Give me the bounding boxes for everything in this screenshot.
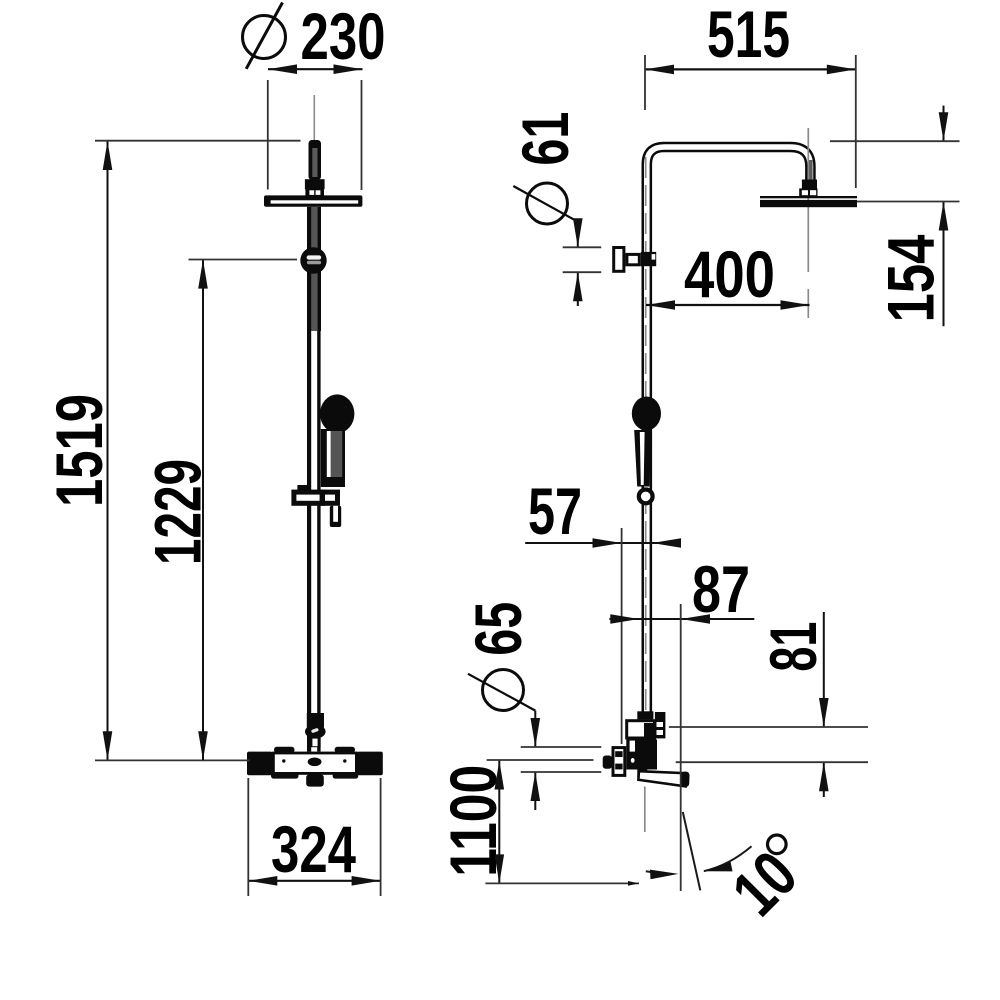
axis below spout (side) — [644, 787, 646, 833]
svg-text:57: 57 — [528, 474, 582, 548]
dimension 57 extension line — [621, 528, 623, 744]
slide bracket (front) — [294, 485, 338, 506]
dimension 154 extension lines — [830, 141, 960, 201]
mixer connector pipe + ball (front) — [305, 713, 326, 747]
svg-text:230: 230 — [301, 0, 386, 73]
shower arm tube (side) — [647, 147, 813, 712]
head stem nut (side) — [799, 180, 817, 197]
dimension 230 extension lines — [268, 80, 362, 190]
10 degree ring — [768, 835, 787, 854]
dimension 65 lines and arrows — [531, 711, 541, 810]
dimension 1100 extension line — [487, 759, 594, 761]
hand shower handle (front) — [321, 429, 345, 487]
dimension 1519 line and arrows — [103, 141, 113, 760]
dimension 230 line and arrows — [268, 64, 363, 74]
svg-text:400: 400 — [684, 237, 775, 311]
10 degree arc and arrows — [646, 846, 752, 879]
ball joint (front) — [300, 247, 326, 273]
svg-text:324: 324 — [271, 812, 356, 886]
riser pipe upper (front) — [307, 207, 321, 331]
dimension 61 extension lines — [563, 247, 602, 272]
shower head plate (side) — [760, 196, 857, 207]
dimension 515 line and arrows — [645, 65, 856, 75]
dimension 324 extension lines — [248, 778, 380, 896]
svg-text:81: 81 — [756, 622, 830, 672]
shower head stem — [305, 140, 325, 196]
dimension 65 diameter symbol and leader — [468, 670, 535, 711]
dimension 515 extension lines — [645, 55, 856, 188]
hand shower handle (side) — [634, 430, 651, 487]
riser end nut (side) — [637, 711, 653, 719]
dimension 1229 line and arrows — [198, 260, 208, 761]
dimension 65 extension lines — [521, 747, 602, 772]
svg-text:1519: 1519 — [42, 394, 116, 507]
riser pipe lower (front) — [307, 331, 321, 752]
hand shower head (front) — [320, 394, 354, 433]
dimension 61 lines and arrows — [573, 218, 583, 306]
10 degree slanted line — [683, 812, 701, 890]
svg-text:61: 61 — [508, 112, 582, 166]
wall holder knob (side) — [614, 248, 657, 272]
dimension 154 lines and arrows — [939, 106, 949, 327]
dimension 1100 line and arrows — [495, 761, 505, 884]
svg-text:65: 65 — [461, 602, 535, 656]
dimension 57 line and arrows — [525, 538, 681, 548]
floor reference line — [485, 881, 639, 886]
svg-text:515: 515 — [707, 0, 790, 71]
dimension 1519 extension lines — [95, 141, 301, 761]
dimension 1229 extension line — [189, 259, 298, 261]
centerline above head stem — [313, 95, 315, 140]
dashed centerline of riser (side) — [645, 157, 647, 710]
hand shower head (side) — [632, 397, 661, 431]
dimension 61 diameter symbol and leader — [513, 183, 578, 224]
dimension 230 diameter symbol — [243, 3, 286, 69]
svg-text:154: 154 — [874, 234, 948, 322]
wall flange (side) — [603, 748, 625, 776]
dimension 324 line and arrows — [248, 876, 380, 886]
handle tail below bracket (front) — [330, 506, 341, 527]
mixer body (side) — [626, 712, 665, 777]
dimension 81 extension lines — [669, 727, 868, 762]
thermostatic mixer (front) — [247, 747, 383, 787]
bath spout (side) — [638, 771, 689, 787]
dimension 81 lines and arrows — [819, 612, 829, 797]
svg-text:87: 87 — [692, 552, 750, 626]
shower head plate (front) — [264, 195, 362, 206]
dimension 400 line and arrows — [646, 300, 810, 310]
head axis centerline (side) — [807, 128, 809, 318]
dimension 87 line and arrows — [609, 614, 754, 624]
dimension 87 extension line — [680, 604, 682, 891]
slider ring (side) — [639, 490, 653, 504]
